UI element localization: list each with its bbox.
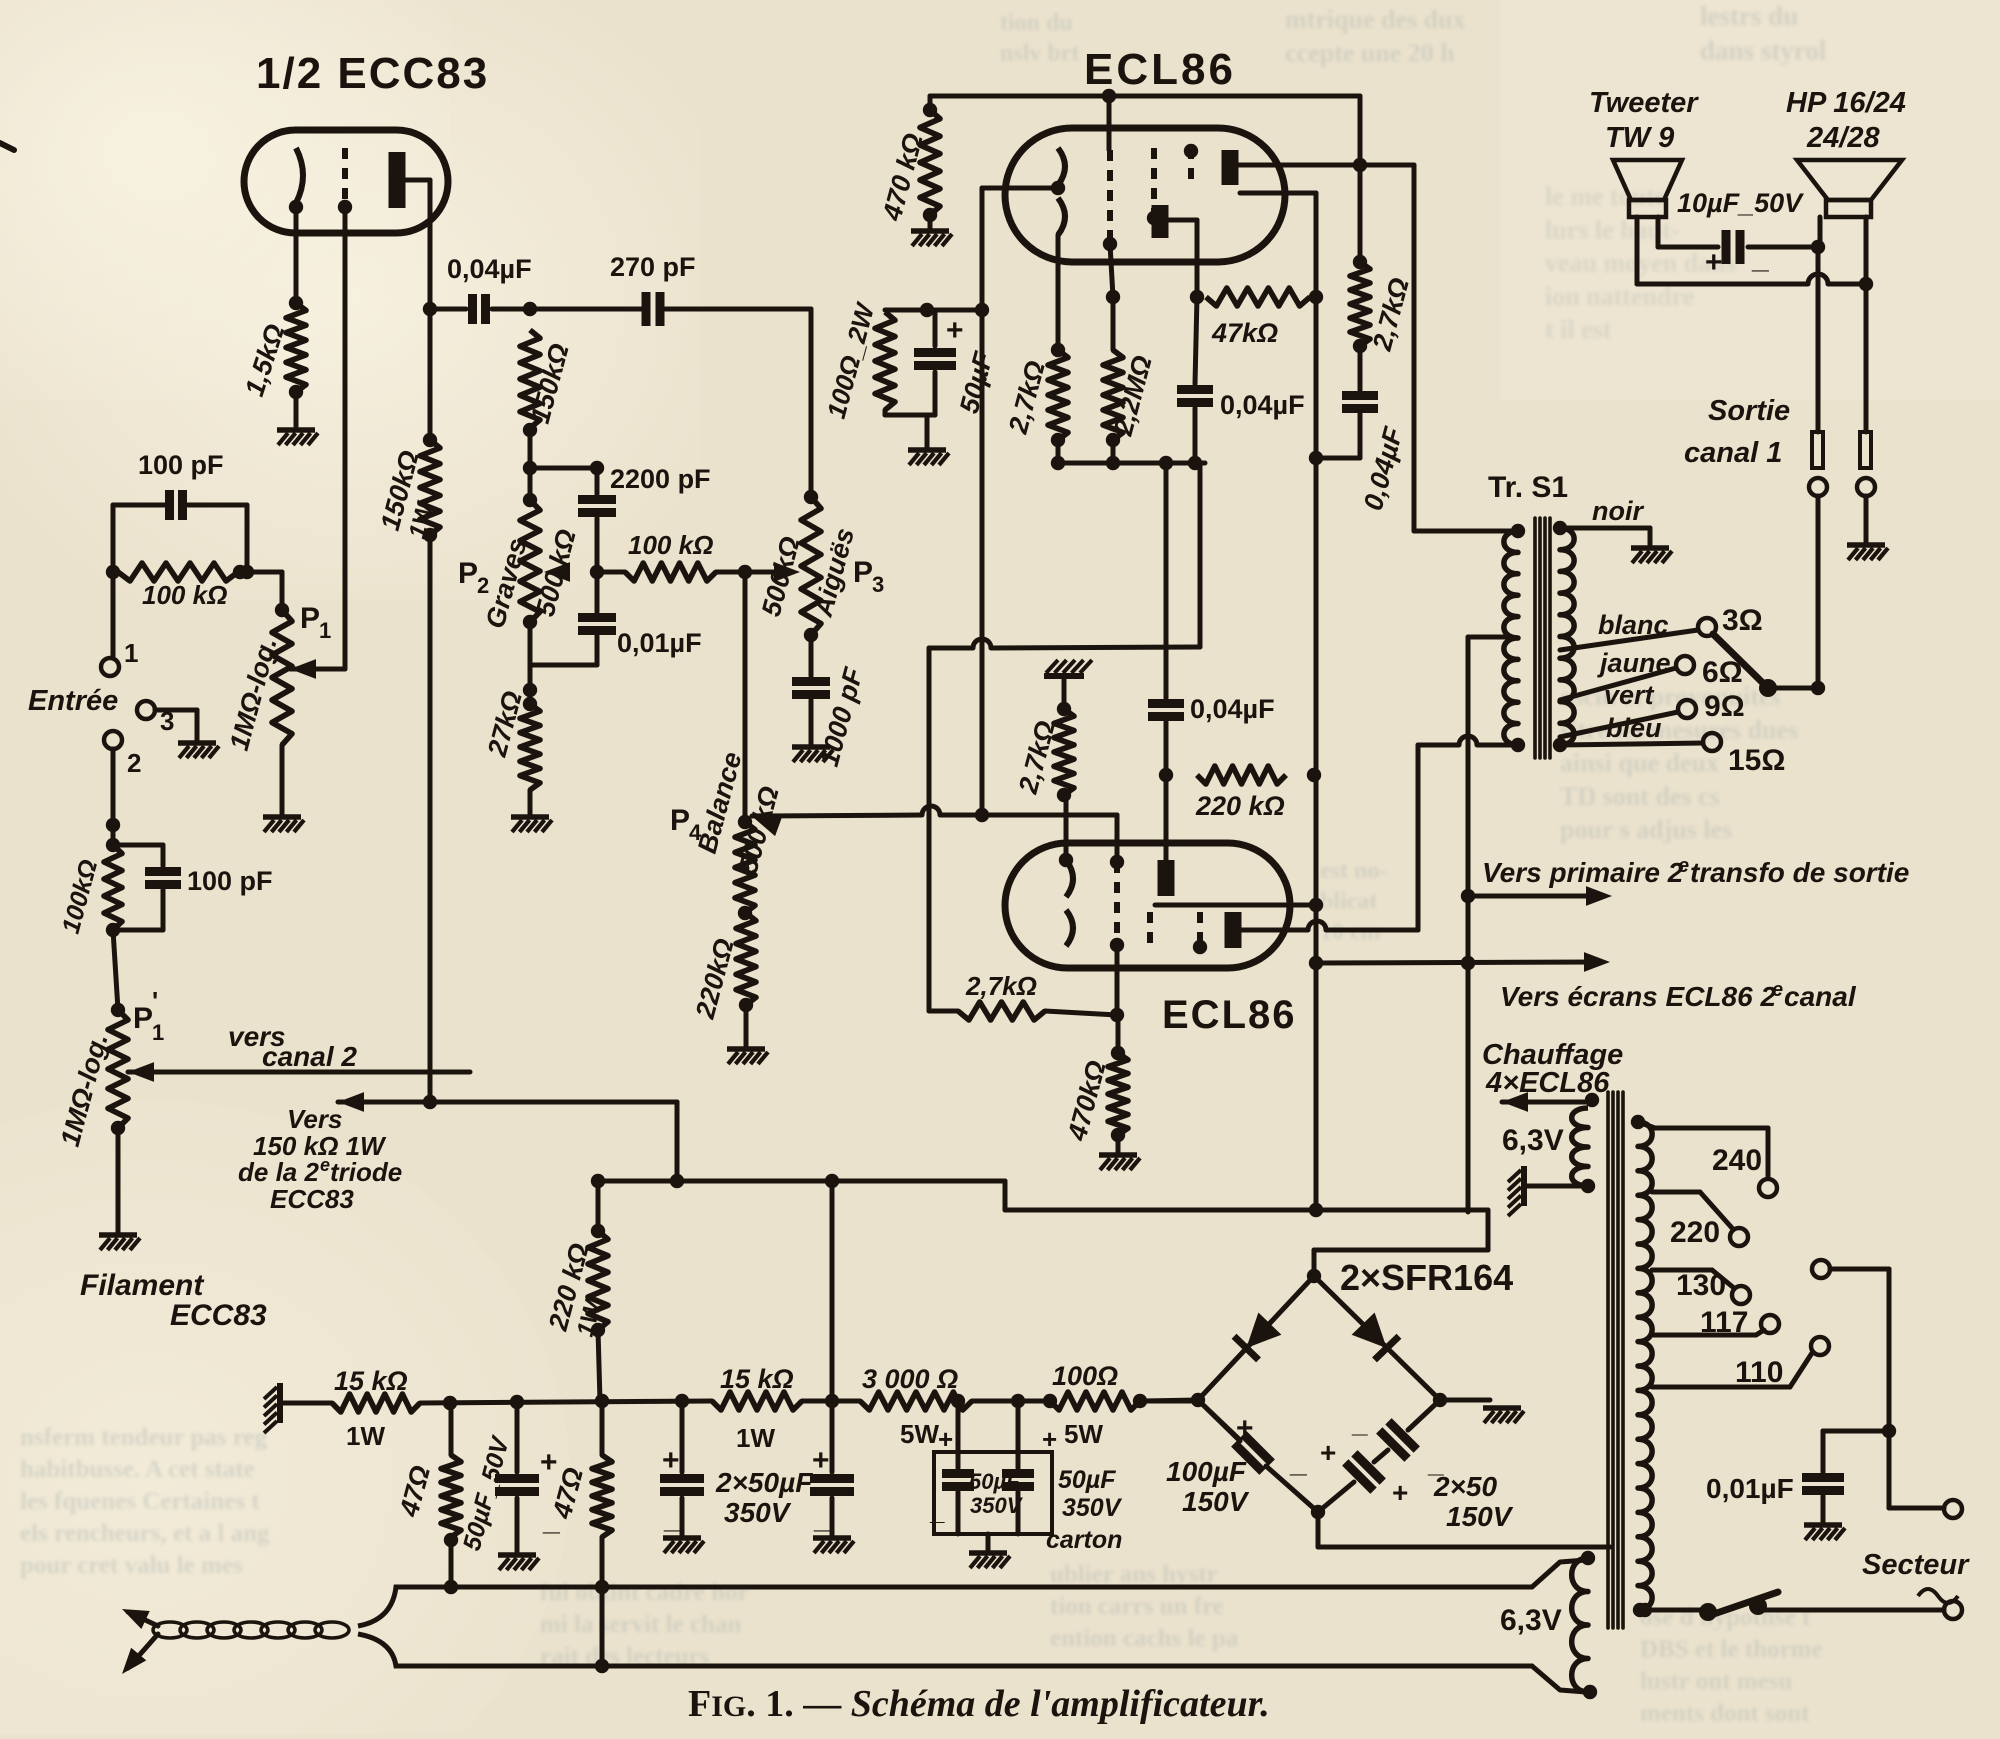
svg-text:350V: 350V: [724, 1497, 792, 1528]
svg-text:de la 2: de la 2: [238, 1157, 319, 1187]
svg-text:dans styrol: dans styrol: [1700, 36, 1827, 66]
svg-text:est no-: est no-: [1320, 858, 1387, 884]
svg-text:220: 220: [1670, 1216, 1720, 1249]
svg-text:lestrs du: lestrs du: [1700, 1, 1798, 31]
svg-text:ECC83: ECC83: [170, 1299, 267, 1332]
svg-text:3 000 Ω: 3 000 Ω: [862, 1364, 958, 1394]
svg-text:noir: noir: [1592, 496, 1644, 526]
svg-text:Entrée: Entrée: [28, 685, 118, 717]
svg-text:1: 1: [319, 618, 331, 643]
svg-text:e: e: [1772, 979, 1783, 1001]
svg-text:oscin et provoquites: oscin et provoquites: [1560, 682, 1781, 711]
svg-text:tion carrs un fre: tion carrs un fre: [1050, 1593, 1224, 1620]
svg-text:ments dont sont: ments dont sont: [1640, 1700, 1810, 1727]
svg-text:mtrique des dux: mtrique des dux: [1285, 5, 1466, 34]
svg-text:e: e: [320, 1155, 330, 1175]
svg-text:5W: 5W: [1064, 1419, 1103, 1449]
svg-text:mi la servit le chan: mi la servit le chan: [540, 1611, 741, 1638]
svg-text:0,01µF: 0,01µF: [1706, 1473, 1794, 1504]
svg-text:nsferm tendeur pas reg: nsferm tendeur pas reg: [20, 1424, 267, 1451]
svg-text:+: +: [938, 1424, 953, 1454]
svg-text:+: +: [1705, 246, 1723, 279]
svg-text:Vers primaire 2: Vers primaire 2: [1482, 857, 1684, 888]
svg-text:220 kΩ: 220 kΩ: [1195, 791, 1285, 821]
svg-text:50µF: 50µF: [969, 1469, 1020, 1494]
svg-text:2×50: 2×50: [1433, 1471, 1497, 1502]
svg-text:canal 1: canal 1: [1684, 437, 1782, 469]
svg-text:10µF_50V: 10µF_50V: [1677, 188, 1804, 218]
svg-text:15Ω: 15Ω: [1728, 744, 1785, 777]
svg-text:ful obtint cadre hor: ful obtint cadre hor: [540, 1579, 749, 1606]
svg-text:le me toute: le me toute: [1545, 182, 1666, 211]
svg-text:100 kΩ: 100 kΩ: [142, 580, 227, 610]
svg-text:1W: 1W: [346, 1421, 385, 1451]
svg-text:TD sont des cs: TD sont des cs: [1560, 782, 1720, 811]
svg-text:+: +: [1320, 1437, 1336, 1468]
svg-text:bleu: bleu: [1606, 713, 1662, 743]
svg-text:transfo de sortie: transfo de sortie: [1690, 857, 1909, 888]
svg-text:2,7kΩ: 2,7kΩ: [965, 971, 1037, 1001]
svg-text:pour cret valu le mes: pour cret valu le mes: [20, 1552, 243, 1579]
svg-text:triode: triode: [330, 1157, 402, 1187]
svg-text:+: +: [662, 1444, 680, 1477]
svg-text:240: 240: [1712, 1144, 1762, 1177]
svg-text:pour s adjus les: pour s adjus les: [1560, 815, 1732, 844]
svg-text:2×50µF: 2×50µF: [715, 1467, 813, 1498]
svg-text:P: P: [458, 557, 478, 590]
svg-text:6,3V: 6,3V: [1500, 1604, 1562, 1637]
svg-text:50µF: 50µF: [1058, 1466, 1116, 1494]
svg-text:0,04µF: 0,04µF: [1190, 694, 1275, 724]
svg-text:HP 16/24: HP 16/24: [1786, 87, 1906, 119]
svg-text:ublier ans hystr: ublier ans hystr: [1050, 1561, 1218, 1588]
svg-text:ainsi que deux: ainsi que deux: [1560, 749, 1719, 778]
svg-text:117: 117: [1700, 1306, 1748, 1339]
svg-text:1: 1: [124, 638, 138, 668]
svg-text:lustr ont mesu: lustr ont mesu: [1640, 1668, 1792, 1695]
svg-text:130: 130: [1676, 1269, 1726, 1302]
svg-text:100µF: 100µF: [1166, 1456, 1247, 1487]
svg-text:carton: carton: [1046, 1526, 1122, 1554]
svg-text:Sortie: Sortie: [1708, 395, 1790, 427]
svg-text:nslv brt: nslv brt: [1000, 41, 1079, 67]
svg-text:canal: canal: [1784, 981, 1857, 1012]
svg-text:150V: 150V: [1182, 1486, 1250, 1517]
svg-text:_: _: [1289, 1446, 1307, 1479]
svg-text:TW 9: TW 9: [1605, 122, 1674, 154]
svg-text:100 kΩ: 100 kΩ: [628, 530, 713, 560]
svg-text:ECC83: ECC83: [270, 1184, 354, 1214]
svg-text:100 pF: 100 pF: [138, 450, 224, 480]
svg-text:24/28: 24/28: [1806, 122, 1880, 154]
svg-text:270 pF: 270 pF: [610, 252, 696, 282]
svg-text:jaune: jaune: [1597, 648, 1671, 678]
svg-text:3Ω: 3Ω: [1722, 604, 1763, 637]
svg-text:+: +: [1042, 1424, 1057, 1454]
svg-text:+: +: [946, 314, 964, 347]
svg-text:Tr. S1: Tr. S1: [1488, 471, 1568, 504]
svg-text:els rencheurs, et a l ang: els rencheurs, et a l ang: [20, 1520, 270, 1547]
svg-text:2×SFR164: 2×SFR164: [1340, 1257, 1513, 1298]
svg-text:2200 pF: 2200 pF: [610, 464, 711, 494]
svg-text:P: P: [670, 804, 690, 837]
svg-text:6,3V: 6,3V: [1502, 1124, 1564, 1157]
svg-text:habitbusse. A cet state: habitbusse. A cet state: [20, 1456, 255, 1483]
svg-text:_: _: [813, 1502, 831, 1535]
svg-text:0,04µF: 0,04µF: [1220, 390, 1305, 420]
svg-text:5W: 5W: [900, 1419, 939, 1449]
svg-text:1W: 1W: [736, 1423, 775, 1453]
svg-text:canal 2: canal 2: [262, 1041, 357, 1072]
svg-text:_: _: [1351, 1407, 1368, 1438]
svg-text:ECL86: ECL86: [1084, 45, 1236, 94]
svg-text:+: +: [1392, 1477, 1408, 1508]
svg-text:_: _: [929, 1496, 945, 1526]
svg-text:1: 1: [152, 1020, 164, 1045]
svg-text:tion du: tion du: [1000, 10, 1073, 36]
svg-text:les fquenes Certaines t: les fquenes Certaines t: [20, 1488, 260, 1515]
svg-text:FIG. 1. — Schéma de l'amplific: FIG. 1. — Schéma de l'amplificateur.: [688, 1683, 1270, 1725]
svg-text:2: 2: [477, 573, 489, 598]
svg-text:ccepte une 20 h: ccepte une 20 h: [1285, 38, 1455, 67]
svg-text:_: _: [1751, 242, 1769, 275]
svg-text:Filament: Filament: [80, 1269, 205, 1302]
svg-text:Vers écrans ECL86 2: Vers écrans ECL86 2: [1500, 981, 1776, 1012]
svg-text:1/2 ECC83: 1/2 ECC83: [256, 49, 489, 98]
svg-text:0,01µF: 0,01µF: [617, 628, 702, 658]
svg-text:': ': [152, 986, 158, 1016]
svg-text:blicat: blicat: [1320, 889, 1377, 915]
svg-text:ention cachs le pa: ention cachs le pa: [1050, 1625, 1239, 1652]
svg-text:350V: 350V: [1062, 1494, 1123, 1522]
svg-text:vert: vert: [1604, 680, 1655, 710]
svg-text:110: 110: [1735, 1356, 1783, 1389]
svg-text:DBS et le thorme: DBS et le thorme: [1640, 1636, 1823, 1663]
svg-text:9Ω: 9Ω: [1704, 690, 1745, 723]
svg-text:P: P: [300, 602, 320, 635]
svg-text:2: 2: [127, 748, 141, 778]
svg-text:e: e: [1678, 855, 1689, 877]
svg-text:+: +: [812, 1444, 830, 1477]
svg-text:Secteur: Secteur: [1862, 1549, 1970, 1581]
svg-text:100Ω: 100Ω: [1052, 1361, 1118, 1391]
svg-text:blanc: blanc: [1598, 610, 1669, 640]
svg-text:100 pF: 100 pF: [187, 866, 273, 896]
svg-text:P: P: [133, 1002, 153, 1035]
svg-text:Vers: Vers: [287, 1104, 342, 1134]
svg-text:15 kΩ: 15 kΩ: [720, 1364, 794, 1394]
svg-text:_: _: [663, 1502, 681, 1535]
svg-text:350V: 350V: [970, 1493, 1024, 1518]
svg-text:3: 3: [872, 572, 884, 597]
svg-text:+: +: [1236, 1412, 1254, 1445]
svg-text:15 kΩ: 15 kΩ: [334, 1366, 408, 1396]
svg-text:t il est: t il est: [1545, 315, 1612, 344]
svg-text:P: P: [853, 556, 873, 589]
svg-text:Tweeter: Tweeter: [1589, 87, 1699, 119]
svg-text:ECL86: ECL86: [1162, 993, 1297, 1037]
svg-text:150V: 150V: [1446, 1501, 1514, 1532]
svg-text:+: +: [540, 1446, 558, 1479]
svg-text:47kΩ: 47kΩ: [1211, 318, 1278, 348]
svg-text:0,04µF: 0,04µF: [447, 254, 532, 284]
